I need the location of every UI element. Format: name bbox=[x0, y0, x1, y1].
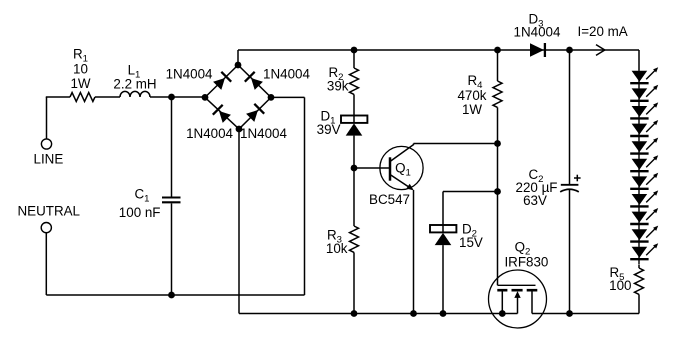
label C2 plus bbox=[574, 175, 581, 182]
wire Q1 collector to R4 node bbox=[414, 143, 498, 145]
node C1 top junction bbox=[168, 94, 175, 101]
svg-text:10: 10 bbox=[73, 62, 88, 77]
terminal LINE bbox=[41, 139, 51, 149]
diode bridge D top-right 1N4004 bbox=[245, 72, 264, 91]
LED D14 bbox=[630, 243, 658, 264]
node R2 top bbox=[351, 47, 358, 54]
label R1 values bbox=[70, 47, 90, 92]
resistor R5 bbox=[635, 268, 644, 294]
svg-text:10k: 10k bbox=[326, 241, 348, 256]
inductor L1 bbox=[120, 91, 150, 97]
LED D9 bbox=[630, 155, 658, 176]
node gate-D2 junction bbox=[494, 188, 501, 195]
wire D1 to base node bbox=[353, 136, 355, 168]
mosfet Q2 drain lead bbox=[531, 290, 533, 313]
transistor Q1 collector bbox=[390, 144, 414, 162]
svg-text:1N4004: 1N4004 bbox=[166, 66, 213, 81]
wire C1 bottom bbox=[171, 204, 173, 296]
mosfet Q2 source lead bbox=[501, 290, 503, 313]
node R4 top bbox=[494, 47, 501, 54]
label R3 values bbox=[326, 228, 348, 257]
node collector junction bbox=[494, 140, 501, 147]
label 1N4004 bottom-left bbox=[186, 126, 233, 141]
mosfet Q2 channel stub middle bbox=[512, 289, 523, 292]
node Q1 emitter ground bbox=[410, 310, 417, 317]
zener diode D2 cathode bar bbox=[430, 225, 456, 233]
svg-text:1N4004: 1N4004 bbox=[240, 126, 287, 141]
LED D4 bbox=[630, 67, 658, 88]
label D2 values bbox=[459, 222, 483, 251]
mosfet Q2 channel stub left bbox=[497, 289, 507, 292]
current arrow I bbox=[596, 45, 605, 56]
wire C2 to drain segment bbox=[569, 190, 571, 314]
svg-text:63V: 63V bbox=[523, 193, 547, 208]
label C2 values bbox=[516, 167, 558, 208]
node bridge bottom bbox=[236, 126, 243, 133]
svg-text:I=20 mA: I=20 mA bbox=[578, 24, 628, 39]
wire bridge top to rail bbox=[237, 50, 239, 65]
diode bridge D bottom-left 1N4004 bbox=[213, 105, 232, 124]
wire top rail to LED string bbox=[638, 50, 640, 71]
node R3 ground bbox=[351, 310, 358, 317]
wire Q1 emitter to ground bbox=[413, 190, 415, 314]
wire L1 to bridge bbox=[150, 96, 205, 98]
mosfet Q2 channel stub right bbox=[527, 289, 538, 292]
wire ground rail bbox=[239, 129, 502, 314]
mosfet Q2 circle bbox=[489, 270, 547, 328]
wire rail to R2 bbox=[353, 50, 355, 68]
capacitor C1 bbox=[162, 198, 181, 203]
node C2 bottom bbox=[566, 310, 573, 317]
LED D11 bbox=[630, 190, 658, 211]
label R5 values bbox=[609, 265, 631, 293]
wire top rail bbox=[238, 49, 639, 51]
label Q2 bbox=[515, 240, 531, 258]
label D1 values bbox=[317, 109, 341, 138]
label 1N4004 bottom-right bbox=[240, 126, 287, 141]
label Q1 bbox=[395, 161, 411, 179]
diode D3 1N4004 bbox=[530, 43, 545, 57]
LED D6 bbox=[630, 102, 658, 123]
label BC547 bbox=[369, 192, 410, 207]
wire drain segment bbox=[532, 313, 639, 315]
svg-text:1W: 1W bbox=[70, 76, 90, 91]
label NEUTRAL bbox=[18, 204, 81, 219]
node C1 bottom junction bbox=[168, 292, 175, 299]
svg-text:100: 100 bbox=[609, 278, 631, 293]
wire D2 branch bbox=[443, 192, 498, 226]
wire rail to R4 bbox=[497, 50, 499, 81]
capacitor C2 plus plate bbox=[561, 184, 579, 186]
wire LED string to R5 bbox=[638, 265, 640, 268]
transistor Q1 emitter bbox=[390, 175, 414, 191]
wire C1 branch top bbox=[171, 97, 173, 197]
wire neutral riser to bridge right bbox=[271, 97, 305, 295]
zener diode D1 cathode bar bbox=[341, 116, 367, 124]
LED D8 bbox=[630, 138, 658, 159]
svg-text:2.2 mH: 2.2 mH bbox=[113, 77, 156, 92]
LED D7 bbox=[630, 120, 658, 141]
svg-text:BC547: BC547 bbox=[369, 192, 410, 207]
resistor R1 bbox=[70, 93, 95, 102]
svg-text:IRF830: IRF830 bbox=[504, 255, 548, 270]
terminal NEUTRAL bbox=[41, 223, 51, 233]
wire R5 to drain segment bbox=[638, 294, 640, 313]
mosfet Q2 body tie bbox=[502, 293, 517, 314]
label D3 bbox=[514, 12, 561, 40]
wire D2 to ground bbox=[442, 245, 444, 313]
svg-text:470k: 470k bbox=[457, 88, 486, 103]
svg-text:LINE: LINE bbox=[34, 152, 64, 167]
zener diode D2 anode triangle bbox=[435, 233, 452, 245]
node C2 top bbox=[566, 47, 573, 54]
resistor R4 bbox=[493, 81, 502, 107]
svg-text:15V: 15V bbox=[459, 235, 483, 250]
resistor R2 bbox=[350, 68, 359, 94]
node bridge right bbox=[268, 94, 275, 101]
wire R1 to L1 bbox=[95, 96, 120, 98]
transistor Q1 base bar bbox=[389, 157, 392, 180]
wire R3 to ground rail bbox=[353, 252, 355, 313]
node bridge top bbox=[235, 62, 242, 69]
transistor Q1 circle bbox=[380, 146, 423, 189]
LED D5 bbox=[630, 85, 658, 106]
zener diode D1 anode triangle bbox=[346, 123, 363, 135]
LED D12 bbox=[630, 208, 658, 229]
capacitor C2 curved plate bbox=[560, 189, 579, 192]
svg-text:1N4004: 1N4004 bbox=[186, 126, 233, 141]
label LINE bbox=[34, 152, 64, 167]
label R2 values bbox=[327, 65, 349, 94]
LED D10 bbox=[630, 173, 658, 194]
label 1N4004 top-left bbox=[166, 66, 213, 81]
wire bridge arm top-left bbox=[205, 65, 238, 97]
label R4 values bbox=[457, 73, 486, 117]
label C1 values bbox=[119, 187, 161, 221]
node bridge left bbox=[202, 94, 209, 101]
wire R2 to D1 bbox=[353, 94, 355, 115]
wire bridge arm top-right bbox=[238, 65, 271, 97]
diode bridge D bottom-right 1N4004 bbox=[245, 104, 264, 123]
wire base node to R3 bbox=[353, 168, 355, 226]
diode bridge D top-left 1N4004 bbox=[212, 72, 231, 91]
label I=20 mA bbox=[578, 24, 628, 39]
wire rail to C2 bbox=[569, 50, 571, 184]
node D2 ground bbox=[440, 310, 447, 317]
wire LINE to R1 bbox=[46, 97, 70, 139]
svg-text:NEUTRAL: NEUTRAL bbox=[18, 204, 81, 219]
wire bridge arm bottom-right bbox=[239, 97, 271, 129]
svg-text:1N4004: 1N4004 bbox=[514, 25, 561, 40]
svg-text:100 nF: 100 nF bbox=[119, 205, 161, 220]
node Q2 source ground bbox=[499, 310, 506, 317]
resistor R3 bbox=[350, 226, 359, 252]
mosfet Q2 body arrow bbox=[514, 291, 520, 298]
mosfet Q2 gate bar bbox=[498, 284, 536, 286]
svg-text:39V: 39V bbox=[317, 122, 341, 137]
svg-text:1N4004: 1N4004 bbox=[263, 66, 310, 81]
wire bridge arm bottom-left bbox=[205, 97, 239, 129]
LED D13 bbox=[630, 226, 658, 247]
wire NEUTRAL rail bbox=[46, 232, 304, 295]
svg-text:1W: 1W bbox=[462, 102, 482, 117]
node Q1 base junction bbox=[351, 165, 358, 172]
label L1 values bbox=[113, 63, 156, 92]
label 1N4004 top-right bbox=[263, 66, 310, 81]
svg-text:39k: 39k bbox=[327, 79, 349, 94]
label IRF830 bbox=[504, 255, 548, 270]
wire R4 to gate bbox=[497, 107, 499, 285]
wire Q1 base bbox=[354, 167, 390, 169]
